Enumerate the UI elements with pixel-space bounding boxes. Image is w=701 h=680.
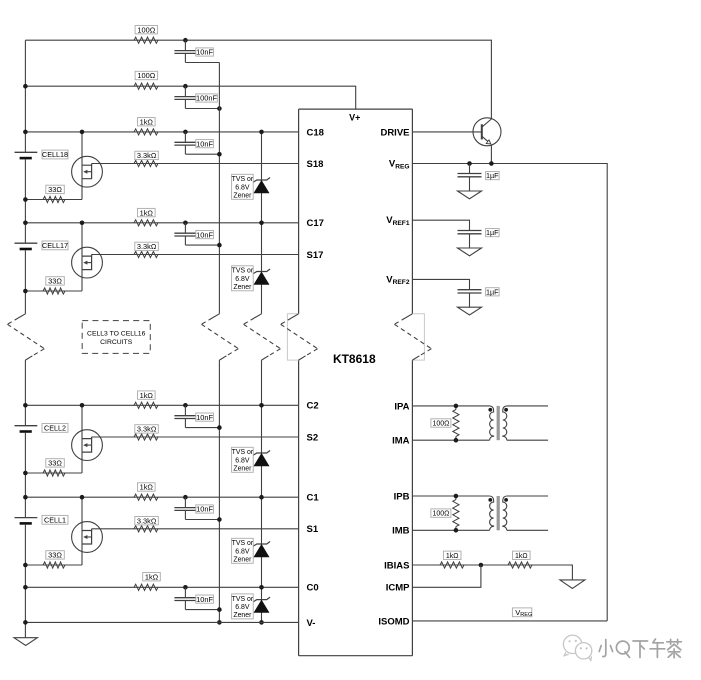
break jog IC left edge bbox=[287, 314, 298, 360]
node junction cap to filter bus CELL18 bbox=[217, 152, 222, 157]
ground symbol bottom of stack bbox=[14, 638, 37, 646]
node junction bus / C line CELL17 bbox=[23, 221, 28, 226]
wire VREF1 to cap bbox=[412, 220, 469, 230]
label 1uF VREF2 bbox=[486, 288, 500, 296]
wire balance resistor line CELL2 bbox=[25, 472, 82, 474]
resistor 33ohm balance CELL1 bbox=[43, 562, 65, 568]
svg-text:33Ω: 33Ω bbox=[48, 277, 62, 286]
label TVS zener C0-Vminus bbox=[232, 594, 254, 619]
node junction C line / TVS chain CELL1 bbox=[259, 495, 264, 500]
svg-text:C18: C18 bbox=[307, 127, 324, 138]
node junction C0 cap to filter bus bbox=[217, 607, 222, 612]
node junction bus / C line CELL1 bbox=[23, 495, 28, 500]
omitted cells dashed box CELL3-CELL16 bbox=[82, 321, 150, 354]
node junction cap to filter bus CELL2 bbox=[217, 425, 222, 430]
svg-text:CELL3 TO CELL16: CELL3 TO CELL16 bbox=[87, 330, 146, 337]
node junction bus / V- line bbox=[23, 620, 28, 625]
label 1uF VREG bbox=[486, 172, 500, 180]
label TVS zener C18-C17 bbox=[232, 174, 254, 199]
wire IPB/IMB primary bottom bbox=[412, 529, 489, 531]
svg-text:KT8618: KT8618 bbox=[333, 352, 376, 366]
node junction C line / TVS chain CELL17 bbox=[259, 221, 264, 226]
label 1k CELL2 bbox=[138, 391, 156, 399]
svg-text:IMB: IMB bbox=[392, 526, 410, 537]
wire battery stack bus break to cell2 bbox=[24, 360, 26, 426]
capacitor 10nF CELL17 bbox=[184, 223, 186, 233]
battery CELL1 bbox=[15, 517, 38, 519]
svg-text:Zener: Zener bbox=[233, 466, 252, 473]
node junction C line / FET CELL2 bbox=[80, 403, 85, 408]
resistor 3.3k S line CELL2 bbox=[134, 434, 158, 440]
TVS zener C0-Vminus bbox=[253, 597, 270, 602]
label 3.3k CELL1 bbox=[135, 517, 159, 525]
node junction bus / balance resistor CELL17 bbox=[23, 289, 28, 294]
wire balance FET gate drop CELL18 bbox=[81, 132, 83, 200]
capacitor 10nF CELL18 bbox=[184, 132, 186, 142]
label CELL1 bbox=[42, 515, 68, 524]
node junction bus / C line CELL2 bbox=[23, 403, 28, 408]
svg-text:1µF: 1µF bbox=[486, 171, 499, 180]
transistor Q1 NPN driver bbox=[473, 118, 501, 146]
transformer IPB/IMB secondary winding bbox=[503, 496, 507, 530]
svg-text:6.8V: 6.8V bbox=[235, 276, 250, 283]
op-amp U1 KT8618 IC body bbox=[299, 109, 413, 656]
svg-text:CELL18: CELL18 bbox=[42, 150, 68, 159]
wire IPA/IMA secondary bottom bbox=[507, 439, 548, 441]
node junction C0 / TVS chain bbox=[259, 585, 264, 590]
svg-text:1kΩ: 1kΩ bbox=[140, 391, 154, 400]
svg-text:IBIAS: IBIAS bbox=[384, 560, 409, 571]
svg-text:3.3kΩ: 3.3kΩ bbox=[137, 242, 157, 251]
svg-text:CIRCUITS: CIRCUITS bbox=[100, 339, 133, 346]
svg-text:VREF2: VREF2 bbox=[386, 274, 410, 286]
wire IBIAS line bbox=[412, 565, 572, 580]
node junction C0 / cap bbox=[183, 585, 188, 590]
resistor 3.3k S line CELL17 bbox=[134, 251, 158, 257]
transformer IPB/IMB core bbox=[497, 496, 500, 530]
resistor 3.3k S line CELL1 bbox=[134, 526, 158, 532]
transformer IPA/IMA secondary winding bbox=[503, 406, 507, 440]
node junction top sense / 10nF bbox=[183, 38, 188, 43]
svg-text:S2: S2 bbox=[307, 432, 319, 443]
resistor 33ohm balance CELL2 bbox=[43, 470, 65, 476]
svg-text:V+: V+ bbox=[349, 113, 360, 123]
label 100ohm V+ bbox=[135, 71, 158, 79]
battery CELL2 bbox=[15, 425, 38, 427]
svg-text:100nF: 100nF bbox=[196, 94, 217, 103]
resistor 33ohm balance CELL18 bbox=[43, 196, 65, 202]
label 33ohm CELL17 bbox=[46, 277, 65, 285]
wire C line CELL1 bbox=[25, 496, 298, 498]
node junction IBIAS / ICMP bbox=[479, 563, 484, 568]
svg-text:1kΩ: 1kΩ bbox=[140, 117, 154, 126]
node junction bus / C0 bbox=[23, 585, 28, 590]
svg-text:C2: C2 bbox=[307, 401, 319, 412]
wire IPA/IMA primary top bbox=[412, 405, 489, 407]
svg-text:IMA: IMA bbox=[392, 436, 410, 447]
node junction C line / cap CELL2 bbox=[183, 403, 188, 408]
wire balance resistor line CELL17 bbox=[25, 290, 82, 292]
wire ICMP line bbox=[412, 565, 481, 587]
svg-text:S17: S17 bbox=[307, 250, 324, 261]
resistor 33ohm balance CELL17 bbox=[43, 288, 65, 294]
wire IPB/IMB secondary bottom bbox=[507, 529, 548, 531]
label TVS zener C1-C0 bbox=[232, 538, 254, 563]
wire balance FET gate drop CELL1 bbox=[81, 497, 83, 565]
svg-text:Zener: Zener bbox=[233, 193, 252, 200]
label VREG net on ISOMD bbox=[512, 608, 531, 617]
capacitor 1uF VREF1 bbox=[458, 230, 482, 232]
svg-text:6.8V: 6.8V bbox=[235, 548, 250, 555]
svg-text:TVS or: TVS or bbox=[232, 596, 254, 603]
node junction C line / TVS chain CELL18 bbox=[259, 130, 264, 135]
capacitor 10nF CELL1 bbox=[184, 497, 186, 507]
svg-text:10nF: 10nF bbox=[196, 413, 213, 422]
svg-text:1kΩ: 1kΩ bbox=[446, 553, 459, 560]
resistor 1k ICMP bbox=[508, 562, 532, 568]
node junction bus / C line CELL18 bbox=[23, 130, 28, 135]
node junction bus / balance resistor CELL18 bbox=[23, 197, 28, 202]
logo icon chat bubbles bbox=[563, 635, 591, 660]
transformer IPA/IMA primary winding bbox=[490, 406, 494, 440]
break mark IC left edge bbox=[292, 314, 299, 318]
battery CELL17 bbox=[15, 242, 38, 244]
node junction filter bus / V- line bbox=[217, 620, 222, 625]
svg-text:TVS or: TVS or bbox=[232, 268, 254, 275]
wire S line CELL17 bbox=[92, 254, 299, 256]
svg-text:VREF1: VREF1 bbox=[386, 215, 410, 227]
wire IPA/IMA primary bottom bbox=[412, 439, 489, 441]
svg-text:100Ω: 100Ω bbox=[432, 421, 449, 428]
TVS zener C2-C1 bbox=[253, 451, 270, 456]
svg-text:TVS or: TVS or bbox=[232, 449, 254, 456]
ground symbol VREG cap bbox=[458, 191, 482, 199]
label CELL18 bbox=[42, 150, 68, 159]
node junction C line / cap CELL1 bbox=[183, 495, 188, 500]
wire IPB/IMB primary top bbox=[412, 495, 489, 497]
label 3.3k CELL18 bbox=[135, 151, 159, 159]
transformer IPA/IMA core bbox=[497, 406, 500, 440]
transistor balance FET CELL1 bbox=[72, 522, 103, 553]
resistor 100ohm IPB/IMB termination bbox=[453, 500, 459, 527]
capacitor 100nF V+ filter bbox=[184, 86, 186, 96]
node junction C line / cap CELL18 bbox=[183, 130, 188, 135]
svg-text:33Ω: 33Ω bbox=[48, 185, 62, 194]
label 33ohm CELL2 bbox=[46, 459, 65, 467]
svg-text:1kΩ: 1kΩ bbox=[515, 553, 528, 560]
break mark IC right edge bbox=[405, 314, 412, 318]
label 1k ICMP bbox=[513, 551, 531, 559]
wire balance FET gate drop CELL2 bbox=[81, 405, 83, 473]
transformer IPB/IMB primary winding bbox=[490, 496, 494, 530]
node junction V+ / 100nF bbox=[183, 84, 188, 89]
svg-text:TVS or: TVS or bbox=[232, 176, 254, 183]
label 100ohm top bbox=[135, 26, 158, 34]
label 1k IBIAS bbox=[443, 551, 461, 559]
wire C line CELL2 bbox=[25, 404, 298, 406]
svg-text:10nF: 10nF bbox=[196, 139, 213, 148]
svg-text:1kΩ: 1kΩ bbox=[140, 208, 154, 217]
transformer IPB/IMB phase dot primary bbox=[488, 498, 492, 502]
svg-text:S18: S18 bbox=[307, 159, 324, 170]
node junction C line / cap CELL17 bbox=[183, 221, 188, 226]
svg-text:100Ω: 100Ω bbox=[137, 25, 155, 34]
wire C line CELL17 bbox=[25, 222, 298, 224]
svg-text:100Ω: 100Ω bbox=[137, 71, 155, 80]
svg-text:3.3kΩ: 3.3kΩ bbox=[137, 516, 157, 525]
node junction cap to filter bus CELL17 bbox=[217, 243, 222, 248]
svg-text:6.8V: 6.8V bbox=[235, 184, 250, 191]
label TVS zener C2-C1 bbox=[232, 447, 254, 472]
label 1uF VREF1 bbox=[486, 229, 500, 237]
node junction TVS chain / V- line bbox=[259, 620, 264, 625]
node junction bus / balance resistor CELL2 bbox=[23, 471, 28, 476]
svg-text:ISOMD: ISOMD bbox=[378, 616, 409, 627]
resistor 1k C line CELL18 bbox=[134, 129, 158, 135]
label 100ohm IPA/IMA bbox=[431, 419, 451, 427]
wire S line CELL1 bbox=[92, 528, 299, 530]
transformer IPA/IMA phase dot primary bbox=[488, 408, 492, 412]
svg-text:10nF: 10nF bbox=[196, 48, 213, 57]
wire balance FET gate drop CELL17 bbox=[81, 223, 83, 291]
node junction cap to filter bus CELL1 bbox=[217, 517, 222, 522]
resistor 100ohm IPA/IMA termination bbox=[453, 410, 459, 437]
wire battery stack bus top segment bbox=[24, 40, 26, 152]
node junction C line / FET CELL17 bbox=[80, 221, 85, 226]
wire filter cap bus lower segment bbox=[218, 360, 220, 622]
wire TVS chain upper segment bbox=[261, 132, 263, 314]
svg-text:100Ω: 100Ω bbox=[432, 511, 449, 518]
wire VREF2 to cap bbox=[412, 279, 469, 289]
wire balance resistor line CELL1 bbox=[25, 564, 82, 566]
node junction C line / FET CELL1 bbox=[80, 495, 85, 500]
label TVS zener C17 down bbox=[232, 266, 254, 291]
logo text xiao Q xia wu cha bbox=[599, 639, 681, 658]
svg-text:3.3kΩ: 3.3kΩ bbox=[137, 425, 157, 434]
svg-text:CELL17: CELL17 bbox=[42, 241, 68, 250]
resistor 3.3k S line CELL18 bbox=[134, 160, 158, 166]
label 3.3k CELL2 bbox=[135, 425, 159, 433]
TVS zener C17 down bbox=[253, 269, 270, 274]
wire balance resistor line CELL18 bbox=[25, 199, 82, 201]
svg-text:IPA: IPA bbox=[394, 401, 409, 412]
svg-text:1µF: 1µF bbox=[486, 228, 499, 237]
break mark on TVS chain bbox=[255, 314, 262, 318]
svg-text:C17: C17 bbox=[307, 218, 324, 229]
svg-text:33Ω: 33Ω bbox=[48, 551, 62, 560]
svg-text:1kΩ: 1kΩ bbox=[145, 572, 159, 581]
transistor balance FET CELL2 bbox=[72, 430, 103, 461]
capacitor 10nF top sense bbox=[184, 40, 186, 50]
svg-text:VREG: VREG bbox=[389, 159, 410, 171]
resistor 1k C0 bbox=[134, 584, 158, 590]
capacitor 10nF C0 bbox=[184, 587, 186, 597]
svg-text:Zener: Zener bbox=[233, 284, 252, 291]
transistor balance FET CELL18 bbox=[72, 156, 103, 187]
svg-text:S1: S1 bbox=[307, 524, 319, 535]
node junction IPA/IMA top / resistor bbox=[454, 404, 459, 409]
svg-text:V-: V- bbox=[307, 618, 316, 629]
ground symbol IBIAS bbox=[560, 580, 585, 589]
node junction C line / TVS chain CELL2 bbox=[259, 403, 264, 408]
svg-text:10nF: 10nF bbox=[196, 230, 213, 239]
TVS zener C1-C0 bbox=[253, 542, 270, 547]
svg-text:DRIVE: DRIVE bbox=[380, 127, 409, 138]
svg-text:ICMP: ICMP bbox=[386, 583, 410, 594]
node junction bus / V+ line bbox=[23, 84, 28, 89]
label 3.3k CELL17 bbox=[135, 242, 159, 250]
wire DRIVE to transistor base bbox=[412, 131, 481, 133]
capacitor 1uF VREG bbox=[469, 164, 471, 174]
break mark on battery bus bbox=[18, 314, 25, 318]
wire battery stack bus cell17 to break bbox=[24, 250, 26, 313]
wire battery stack bus cell2-cell1 segment bbox=[24, 433, 26, 518]
label 1k C0 bbox=[143, 573, 161, 581]
wire S line CELL2 bbox=[92, 436, 299, 438]
resistor 1k C line CELL17 bbox=[134, 220, 158, 226]
battery CELL18 bbox=[15, 151, 38, 153]
label 100ohm IPB/IMB bbox=[431, 509, 451, 517]
svg-text:6.8V: 6.8V bbox=[235, 457, 250, 464]
label 1k CELL17 bbox=[138, 208, 156, 216]
resistor 100ohm V+ line bbox=[134, 83, 158, 89]
ground symbol VREF1 cap bbox=[458, 248, 482, 256]
wire top-of-stack sense line to transistor collector bbox=[25, 40, 491, 119]
label 33ohm CELL1 bbox=[46, 551, 65, 559]
node junction C line / FET CELL18 bbox=[80, 130, 85, 135]
svg-text:1µF: 1µF bbox=[486, 287, 499, 296]
node junction IPA/IMA bottom / resistor bbox=[454, 438, 459, 443]
break mark on filter cap bus bbox=[212, 314, 219, 318]
wire V- line bbox=[25, 621, 298, 623]
label 33ohm CELL18 bbox=[46, 185, 65, 193]
wire C line CELL18 bbox=[25, 131, 298, 133]
node junction IPB/IMB bottom / resistor bbox=[454, 528, 459, 533]
svg-text:CELL1: CELL1 bbox=[44, 515, 66, 524]
svg-text:10nF: 10nF bbox=[196, 595, 213, 604]
svg-text:Zener: Zener bbox=[233, 612, 252, 619]
svg-text:CELL2: CELL2 bbox=[44, 424, 66, 433]
ground symbol VREF2 cap bbox=[458, 307, 482, 315]
node junction 100nF to filter bus bbox=[217, 106, 222, 111]
break jog IC right edge bbox=[412, 314, 424, 360]
node junction VREG / 1uF cap bbox=[467, 161, 472, 166]
resistor 100ohm top sense bbox=[134, 37, 158, 43]
svg-text:6.8V: 6.8V bbox=[235, 604, 250, 611]
svg-text:3.3kΩ: 3.3kΩ bbox=[137, 151, 157, 160]
wire IPA/IMA secondary top bbox=[507, 405, 548, 407]
transformer IPB/IMB phase dot secondary bbox=[504, 498, 508, 502]
resistor 1k C line CELL2 bbox=[134, 402, 158, 408]
transformer IPA/IMA phase dot secondary bbox=[504, 408, 508, 412]
wire IPB/IMB secondary top bbox=[507, 495, 548, 497]
node junction IPB/IMB top / resistor bbox=[454, 494, 459, 499]
svg-text:33Ω: 33Ω bbox=[48, 459, 62, 468]
wire ISOMD line bbox=[412, 620, 607, 622]
wire filter cap bus upper segment bbox=[218, 63, 220, 314]
svg-text:Zener: Zener bbox=[233, 557, 252, 564]
label CELL17 bbox=[42, 241, 68, 250]
node junction VREG / emitter bbox=[489, 161, 494, 166]
svg-text:IPB: IPB bbox=[394, 491, 410, 502]
TVS zener C18-C17 bbox=[253, 178, 270, 183]
label CELL2 bbox=[42, 424, 68, 433]
wire transistor emitter to VREG line bbox=[490, 146, 492, 164]
wire C0 line bbox=[25, 586, 298, 588]
svg-text:TVS or: TVS or bbox=[232, 540, 254, 547]
wire battery stack bus cell1 to ground bbox=[24, 525, 26, 638]
wire V+ supply line bbox=[25, 86, 355, 109]
wire VREG line bbox=[412, 164, 607, 621]
svg-text:1kΩ: 1kΩ bbox=[140, 483, 154, 492]
label 1k CELL18 bbox=[138, 118, 156, 126]
transistor balance FET CELL17 bbox=[72, 247, 103, 278]
capacitor 1uF VREF2 bbox=[458, 289, 482, 291]
wire S line CELL18 bbox=[92, 163, 299, 165]
svg-text:10nF: 10nF bbox=[196, 505, 213, 514]
capacitor 10nF CELL2 bbox=[184, 405, 186, 415]
svg-text:C0: C0 bbox=[307, 583, 319, 594]
label 1k CELL1 bbox=[138, 483, 156, 491]
wire battery stack bus cell18-cell17 segment bbox=[24, 159, 26, 243]
node junction bus / balance resistor CELL1 bbox=[23, 563, 28, 568]
resistor 1k C line CELL1 bbox=[134, 494, 158, 500]
svg-text:C1: C1 bbox=[307, 493, 320, 504]
wire TVS chain lower segment bbox=[261, 360, 263, 622]
resistor 1k IBIAS bbox=[440, 562, 464, 568]
